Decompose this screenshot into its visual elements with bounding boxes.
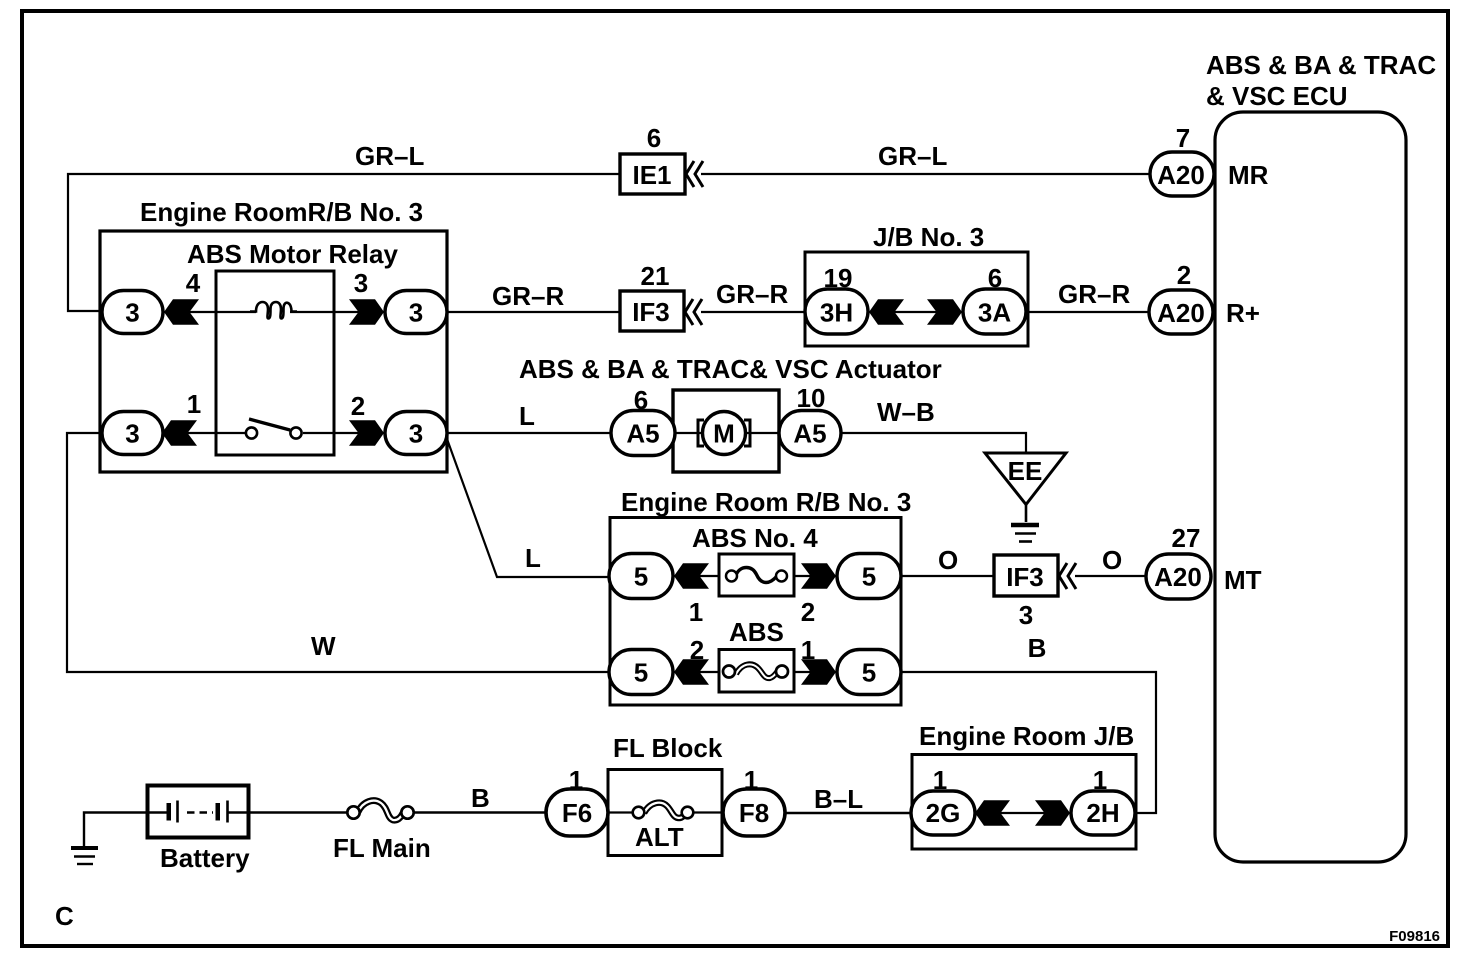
svg-text:W–B: W–B [877,397,935,427]
motor M [698,412,750,455]
svg-text:ABS & BA & TRAC: ABS & BA & TRAC [1206,50,1436,80]
svg-text:2: 2 [351,391,365,421]
svg-text:2: 2 [801,597,815,627]
svg-text:ALT: ALT [635,822,684,852]
svg-text:O: O [938,545,958,575]
svg-text:3: 3 [354,268,368,298]
wire B from ABS fuse to J/B [901,633,1156,813]
svg-text:GR–R: GR–R [716,279,788,309]
wire B-L [785,784,911,814]
node A5 pin 6 [611,385,675,456]
svg-text:FL Main: FL Main [333,833,431,863]
node 3 relay pin4 [102,268,201,334]
fusible link ALT [608,803,722,852]
svg-text:A5: A5 [793,419,826,449]
node A20 pin 27 MT [1146,523,1262,599]
svg-text:5: 5 [634,658,648,688]
svg-text:O: O [1102,545,1122,575]
node F8 pin 1 [723,765,785,836]
ECU ABS & BA & TRAC & VSC ECU [1206,50,1436,862]
svg-text:3: 3 [409,298,423,328]
svg-text:1: 1 [801,635,815,665]
svg-text:3A: 3A [978,298,1011,328]
svg-text:ABS & BA & TRAC& VSC Actuator: ABS & BA & TRAC& VSC Actuator [519,354,942,384]
node 3 relay pin1 [102,389,201,455]
svg-text:B: B [471,783,490,813]
svg-text:5: 5 [634,562,648,592]
wire through actuator [675,432,841,434]
wire battery to F6 [249,811,349,813]
fuse ABS [673,617,837,692]
node A20 pin 7 MR [1150,123,1269,196]
svg-text:1: 1 [1093,765,1107,795]
fuse ABS No. 4 [673,523,837,627]
svg-text:GR–R: GR–R [1058,279,1130,309]
ground battery [71,813,147,865]
wire relay switch row [161,432,245,434]
svg-text:B: B [1028,633,1047,663]
Engine Room J/B box [912,721,1136,849]
wire W from relay pin1 to ABS fuse [67,433,609,672]
svg-text:L: L [525,543,541,573]
connector IF3 pin 3 [994,555,1076,630]
svg-text:3: 3 [125,298,139,328]
svg-text:1: 1 [569,765,583,795]
ABS & BA & TRAC& VSC Actuator box [519,354,942,472]
svg-text:1: 1 [744,765,758,795]
svg-text:IF3: IF3 [1006,562,1044,592]
wire L diagonal from relay pin2 to fuse block [447,439,609,577]
svg-text:3: 3 [409,419,423,449]
svg-text:5: 5 [862,658,876,688]
svg-text:3: 3 [125,419,139,449]
svg-text:L: L [519,401,535,431]
ground EE [985,453,1066,542]
svg-text:7: 7 [1176,123,1190,153]
svg-text:GR–R: GR–R [492,281,564,311]
wire between 2G and 2H [975,812,1070,814]
svg-text:C: C [55,901,74,931]
node 5 fuse2 left [609,650,673,695]
node A20 pin 2 R+ [1149,260,1260,334]
svg-text:ABS No. 4: ABS No. 4 [692,523,818,553]
svg-text:2H: 2H [1086,798,1119,828]
wire O row MT [901,545,1146,576]
svg-text:W: W [311,631,336,661]
svg-text:A20: A20 [1154,562,1202,592]
connector IE1 [620,123,703,194]
svg-text:6: 6 [988,263,1002,293]
wire GR-L from ECU pin MR to relay coil [68,141,1150,311]
wire W-B to ground [841,397,1026,453]
svg-text:Engine Room J/B: Engine Room J/B [919,721,1134,751]
node 3 relay pin2 [349,391,447,455]
fusible link FL Main [333,783,490,863]
svg-text:4: 4 [186,268,201,298]
svg-text:Engine Room R/B No. 3: Engine Room R/B No. 3 [621,487,911,517]
svg-text:Engine RoomR/B No. 3: Engine RoomR/B No. 3 [140,197,423,227]
svg-text:19: 19 [824,263,853,293]
svg-text:6: 6 [647,123,661,153]
battery [147,786,250,874]
svg-text:ABS Motor Relay: ABS Motor Relay [187,239,398,269]
Engine RoomR/B No. 3 relay block box [100,197,447,472]
node 3H pin 19 [805,263,904,334]
svg-text:GR–L: GR–L [355,141,424,171]
svg-text:J/B No. 3: J/B No. 3 [873,222,984,252]
wire GR-R row [447,279,1149,312]
svg-text:10: 10 [797,383,826,413]
svg-text:IE1: IE1 [632,160,671,190]
svg-text:1: 1 [933,765,947,795]
relay switch [246,419,302,439]
node 2G pin 1 [911,765,1010,835]
svg-text:B–L: B–L [814,784,863,814]
svg-text:MR: MR [1228,160,1269,190]
node 5 fuse2 right [837,650,901,695]
svg-text:A5: A5 [626,419,659,449]
svg-text:F6: F6 [562,798,592,828]
svg-text:3: 3 [1019,600,1033,630]
svg-text:2: 2 [690,635,704,665]
svg-text:A20: A20 [1157,298,1205,328]
wire L row to actuator [447,401,611,433]
wire between 3H and 3A [869,311,962,313]
svg-text:MT: MT [1224,565,1262,595]
connector IF3 pin 21 [620,261,702,331]
svg-text:FL Block: FL Block [613,733,723,763]
FL Block box [608,733,723,856]
node A5 pin 10 [779,383,841,456]
svg-text:A20: A20 [1157,160,1205,190]
svg-text:2: 2 [1177,260,1191,290]
svg-text:F8: F8 [739,798,769,828]
svg-text:6: 6 [634,385,648,415]
J/B No. 3 box [805,222,1028,346]
svg-text:M: M [713,419,735,449]
svg-text:5: 5 [862,562,876,592]
svg-text:27: 27 [1172,523,1201,553]
wire relay coil row [163,311,256,313]
relay coil [250,302,297,319]
node 5 fuse1 right [837,554,901,599]
node 2H pin 1 [1035,765,1135,835]
Engine Room R/B No. 3 fuse block box [610,487,911,705]
svg-text:3H: 3H [820,298,853,328]
svg-text:Battery: Battery [160,843,250,873]
svg-text:1: 1 [689,597,703,627]
svg-text:ABS: ABS [729,617,784,647]
svg-text:IF3: IF3 [632,297,670,327]
svg-text:GR–L: GR–L [878,141,947,171]
svg-text:1: 1 [187,389,201,419]
svg-text:EE: EE [1008,456,1043,486]
node 5 fuse1 left [609,554,673,599]
svg-text:2G: 2G [926,798,961,828]
svg-text:& VSC ECU: & VSC ECU [1206,81,1348,111]
node 3A pin 6 [927,263,1026,334]
svg-text:21: 21 [641,261,670,291]
node F6 pin 1 [546,765,608,836]
relay ABS Motor Relay inner box [216,271,334,455]
svg-text:R+: R+ [1226,298,1260,328]
node 3 relay pin3 [349,268,447,334]
svg-text:F09816: F09816 [1389,928,1440,945]
